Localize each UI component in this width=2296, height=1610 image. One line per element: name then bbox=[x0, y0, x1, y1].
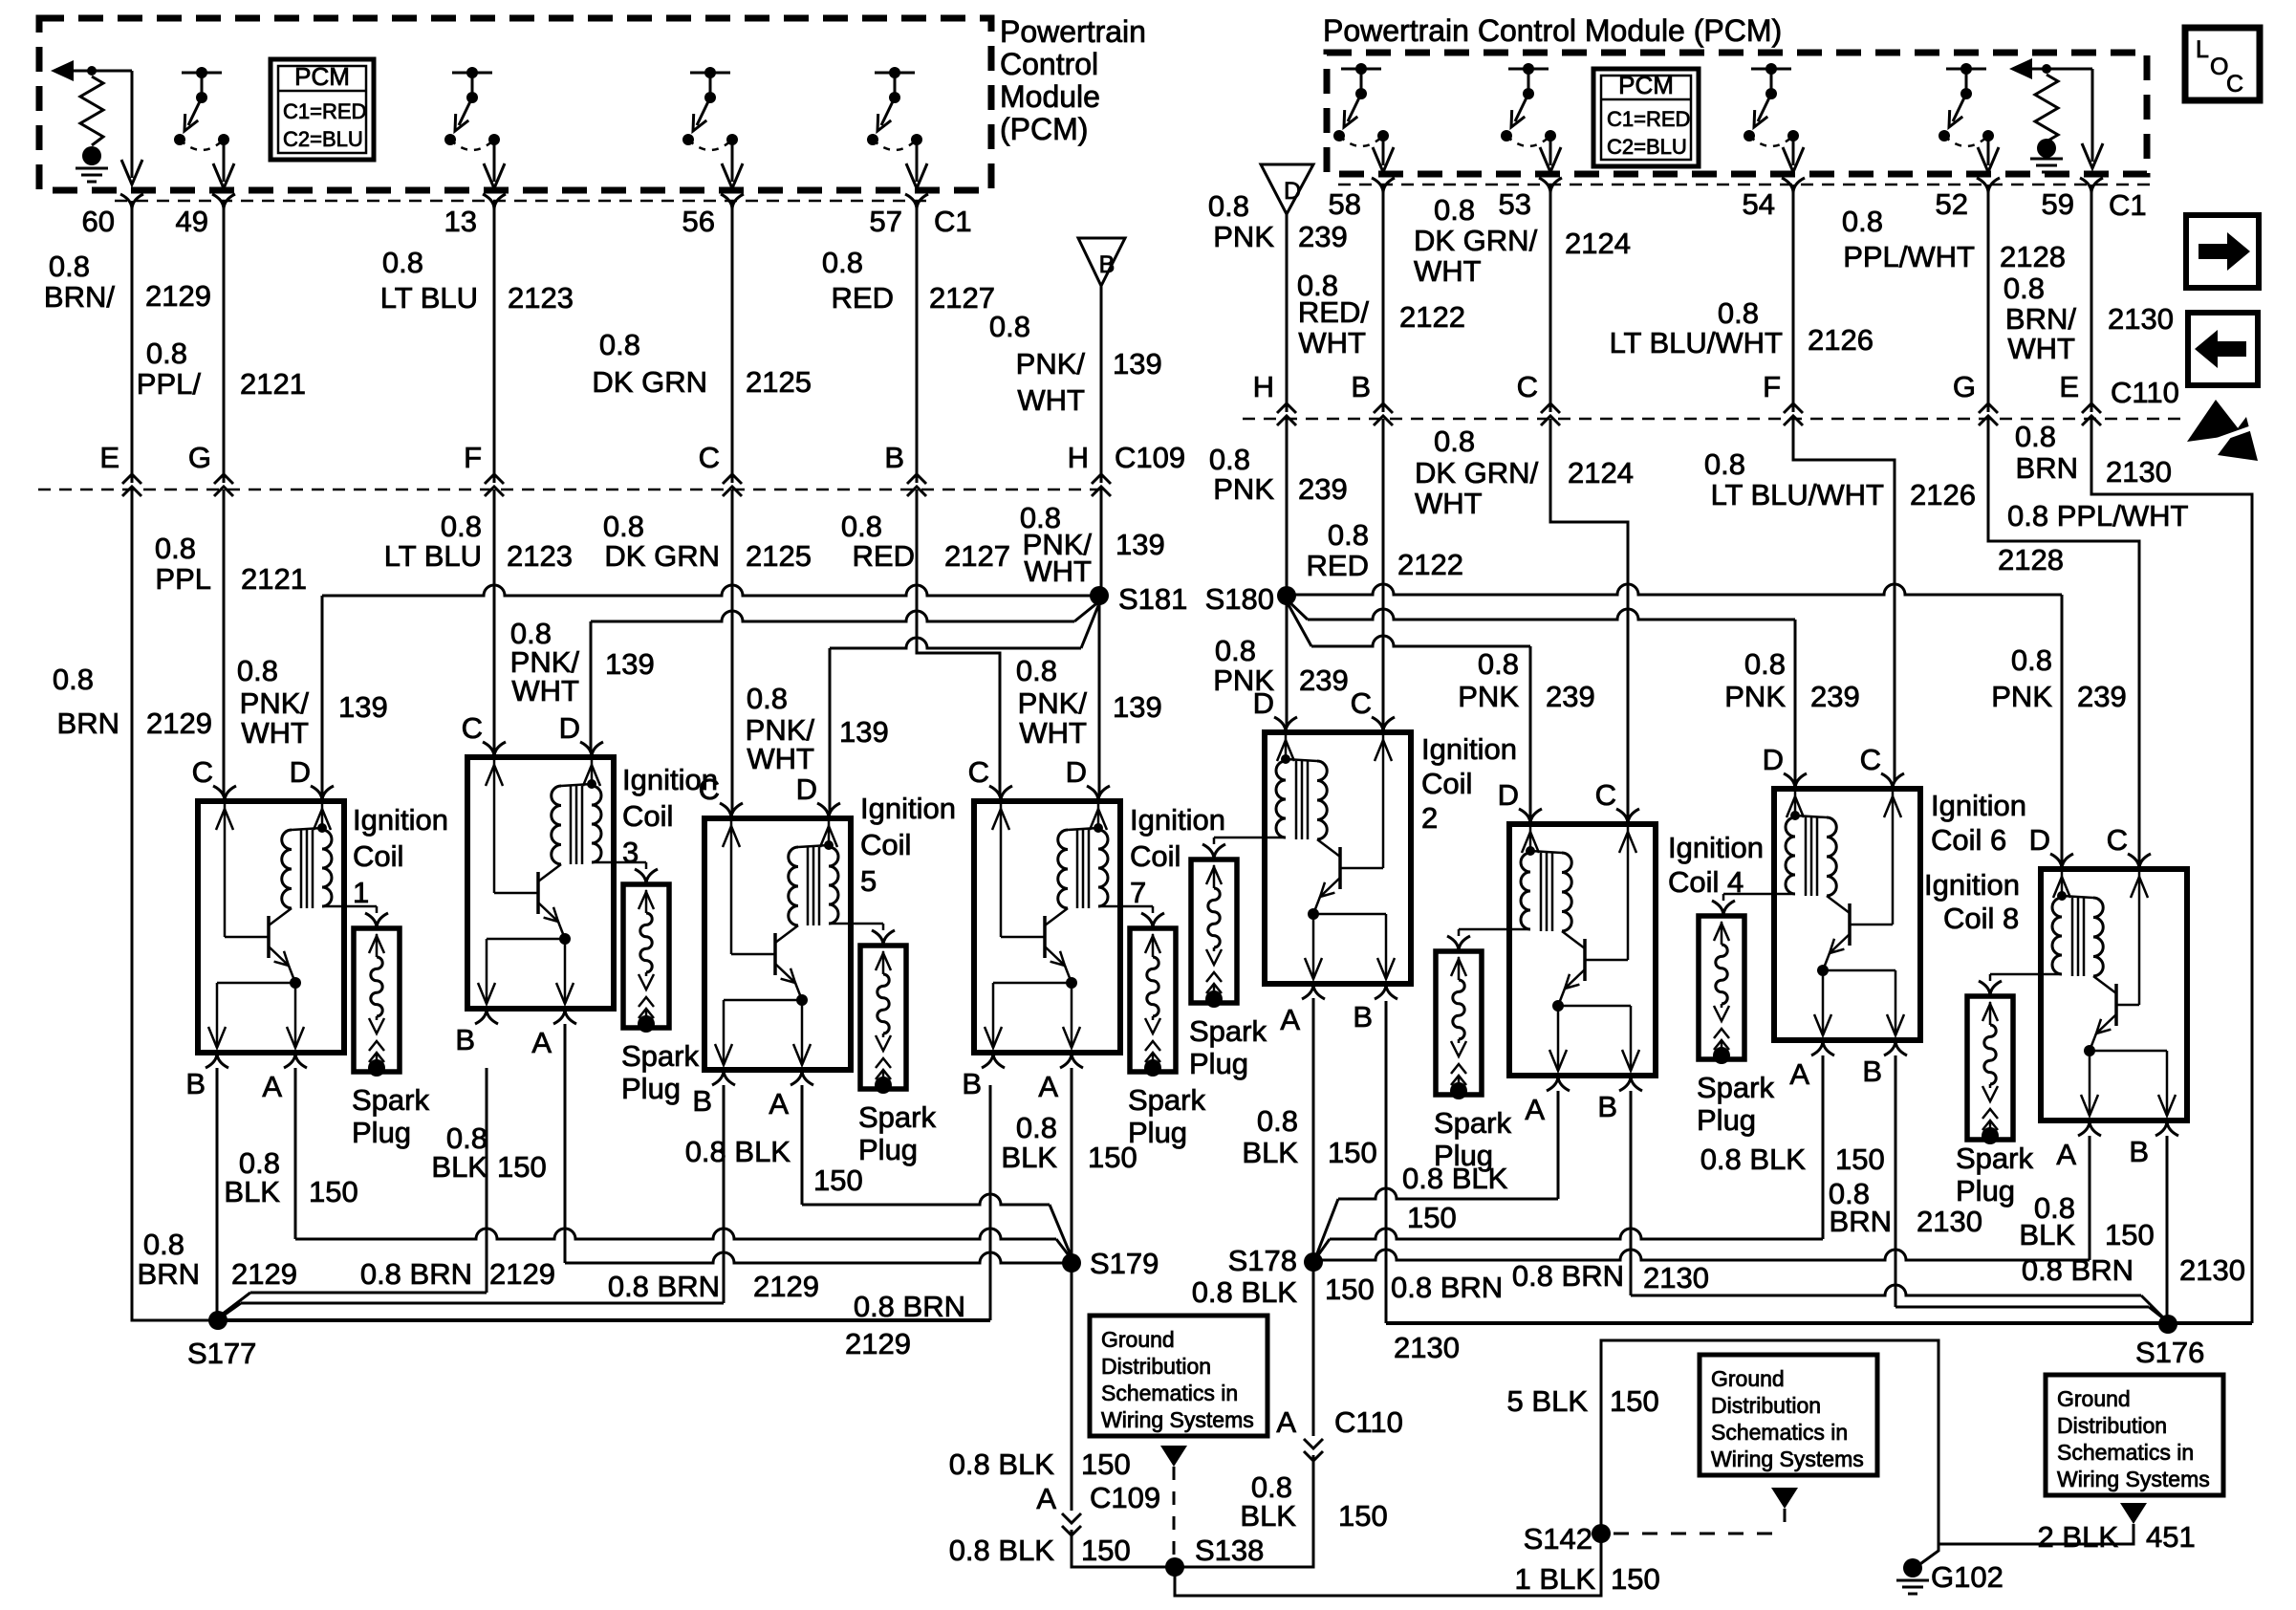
coil 2 D internal wire bbox=[1285, 735, 1288, 759]
wire 150 BLK coil2 A through S178 to C110-A bbox=[1312, 998, 1315, 1436]
svg-text:2130: 2130 bbox=[1643, 1261, 1709, 1295]
C1 pin connector at x=959 bbox=[905, 194, 928, 209]
svg-text:Coil: Coil bbox=[860, 828, 911, 861]
driver dashed arc x=959 bbox=[873, 140, 917, 150]
svg-text:2129: 2129 bbox=[845, 1327, 911, 1360]
coil 3 secondary output to spark plug bbox=[592, 861, 646, 864]
wire 2130 BRN coil2 B to S176 bbox=[1385, 1001, 1388, 1323]
svg-text:239: 239 bbox=[1810, 680, 1860, 713]
coil 3 C internal wire bbox=[493, 760, 496, 893]
spark plug for coil 2 bbox=[1191, 859, 1237, 1003]
svg-text:49: 49 bbox=[176, 205, 208, 238]
ignition coil 1 box bbox=[198, 801, 344, 1053]
svg-text:0.8: 0.8 bbox=[49, 250, 90, 283]
coil 8 terminal D connector bbox=[2050, 854, 2073, 869]
connector C1 line right (dashed) bbox=[1338, 184, 2151, 186]
svg-text:2124: 2124 bbox=[1568, 456, 1634, 490]
svg-text:2129: 2129 bbox=[145, 279, 211, 313]
coil 7 terminal D connector bbox=[1087, 786, 1110, 801]
svg-text:2129: 2129 bbox=[753, 1270, 819, 1303]
svg-text:150: 150 bbox=[1088, 1141, 1137, 1174]
svg-text:2 BLK: 2 BLK bbox=[2038, 1520, 2119, 1554]
svg-text:Wiring Systems: Wiring Systems bbox=[2057, 1467, 2210, 1491]
C1 pin connector at x=234 bbox=[212, 194, 235, 209]
svg-text:DK GRN/: DK GRN/ bbox=[1415, 456, 1539, 490]
svg-text:B: B bbox=[962, 1067, 982, 1100]
svg-text:Spark: Spark bbox=[1697, 1071, 1774, 1104]
svg-text:Distribution: Distribution bbox=[1711, 1393, 1821, 1418]
svg-text:E: E bbox=[99, 441, 119, 474]
coil 3 terminal C connector bbox=[483, 742, 506, 757]
svg-text:2125: 2125 bbox=[746, 365, 812, 399]
svg-text:G: G bbox=[188, 441, 211, 474]
svg-text:C: C bbox=[2226, 71, 2243, 98]
ignition coil 7 box bbox=[974, 801, 1120, 1053]
coil 5 terminal B connector bbox=[712, 1070, 735, 1085]
svg-text:0.8: 0.8 bbox=[822, 246, 863, 279]
coil 4 terminal B connector bbox=[1619, 1076, 1642, 1091]
svg-text:F: F bbox=[464, 441, 482, 474]
svg-text:BRN: BRN bbox=[1830, 1205, 1892, 1238]
svg-text:C: C bbox=[1351, 686, 1372, 720]
coil 1 transformer core bbox=[300, 830, 303, 908]
svg-text:BLK: BLK bbox=[1242, 1136, 1298, 1169]
coil 4 secondary output to spark plug bbox=[1459, 928, 1530, 931]
wire 239 PNK C110-H to S180 bbox=[1286, 419, 1289, 587]
svg-text:B: B bbox=[1351, 370, 1371, 403]
coil 4 terminal A connector bbox=[1547, 1076, 1570, 1091]
svg-text:2121: 2121 bbox=[241, 562, 307, 596]
svg-text:RED: RED bbox=[1307, 549, 1369, 582]
wire 239 PNK triangle-D to C110-H bbox=[1286, 214, 1289, 412]
coil 2 emitter node bbox=[1308, 908, 1319, 920]
svg-text:D: D bbox=[1066, 755, 1087, 789]
connector C110-A pass-through bbox=[1304, 1439, 1323, 1448]
svg-text:2: 2 bbox=[1421, 801, 1438, 835]
coil 7 transistor Q bbox=[1043, 916, 1047, 958]
svg-text:Ground: Ground bbox=[1711, 1366, 1785, 1391]
svg-text:2130: 2130 bbox=[1917, 1205, 1982, 1238]
PCM driver transistor output at x=766 bbox=[690, 72, 730, 75]
driver dashed arc x=1876 bbox=[1749, 136, 1793, 146]
svg-text:DK GRN: DK GRN bbox=[604, 539, 720, 573]
wire 2121 PPL pin49 to C109-G bbox=[223, 201, 226, 483]
svg-text:(PCM): (PCM) bbox=[1000, 112, 1088, 146]
coil 5 terminal A connector bbox=[791, 1070, 813, 1085]
svg-text:B: B bbox=[1353, 1000, 1373, 1033]
coil 6 secondary output to spark plug bbox=[1723, 893, 1795, 896]
svg-text:PNK/: PNK/ bbox=[240, 686, 310, 720]
driver dashed arc x=2080 bbox=[1944, 136, 1988, 146]
coil 5 internal ground wires to A and B bbox=[801, 1000, 804, 1065]
svg-text:Ignition: Ignition bbox=[860, 792, 956, 825]
svg-text:150: 150 bbox=[1081, 1447, 1131, 1481]
svg-text:0.8 BRN: 0.8 BRN bbox=[854, 1290, 965, 1323]
triangle connector B bbox=[1078, 238, 1125, 286]
splice S176 bbox=[2158, 1315, 2177, 1334]
svg-text:A: A bbox=[531, 1026, 552, 1059]
svg-text:5 BLK: 5 BLK bbox=[1507, 1384, 1589, 1418]
svg-text:58: 58 bbox=[1329, 187, 1361, 221]
svg-text:C: C bbox=[1595, 778, 1616, 812]
svg-text:DK GRN: DK GRN bbox=[592, 365, 707, 399]
resistor R-left in PCM with ground bbox=[60, 70, 132, 73]
wire 139 S181 to ignition coil 7 D bbox=[1098, 596, 1101, 794]
coil 8 transformer core bbox=[2071, 898, 2074, 976]
svg-text:2127: 2127 bbox=[929, 281, 995, 315]
svg-text:0.8 BLK: 0.8 BLK bbox=[685, 1135, 791, 1168]
coil 3 transformer core bbox=[570, 786, 573, 864]
svg-text:2125: 2125 bbox=[746, 539, 812, 573]
C109 pass-through at B bbox=[907, 474, 926, 484]
svg-text:B: B bbox=[884, 441, 904, 474]
svg-text:D: D bbox=[1763, 743, 1784, 776]
coil 5 emitter node bbox=[796, 994, 808, 1006]
wire 150 BLK coil4 A to S178 bbox=[1557, 1091, 1560, 1199]
svg-text:BLK: BLK bbox=[1240, 1499, 1296, 1533]
svg-text:B: B bbox=[1862, 1055, 1882, 1088]
wire 2129 BRN C109-E to S177 bbox=[132, 490, 209, 1320]
svg-text:0.8 BRN: 0.8 BRN bbox=[1512, 1259, 1624, 1293]
coil 3 terminal B connector bbox=[475, 1009, 498, 1024]
coil 1 C internal wire bbox=[224, 804, 227, 937]
coil 8 primary winding bbox=[2093, 898, 2103, 976]
svg-text:0.8: 0.8 bbox=[1434, 424, 1475, 458]
coil 7 terminal B connector bbox=[982, 1053, 1005, 1068]
svg-text:Coil: Coil bbox=[353, 839, 403, 873]
svg-text:57: 57 bbox=[870, 205, 902, 238]
PCM driver transistor output at x=1622 bbox=[1508, 68, 1549, 71]
wire 2124 DK GRN/WHT pin53 to C110-C bbox=[1549, 185, 1552, 412]
coil 5 D internal wire bbox=[828, 821, 831, 845]
svg-text:0.8: 0.8 bbox=[1016, 654, 1057, 687]
wire 139 bus S181 to ignition coil 1 D bbox=[322, 585, 1099, 596]
coil 7 terminal A connector bbox=[1060, 1053, 1083, 1068]
ground distribution note box 1 bbox=[1090, 1316, 1267, 1436]
coil 6 D internal wire bbox=[1794, 792, 1797, 816]
svg-text:Ground: Ground bbox=[1101, 1327, 1175, 1352]
svg-text:Coil 6: Coil 6 bbox=[1931, 823, 2006, 857]
gd box 2 pointer triangle bbox=[1771, 1488, 1798, 1509]
svg-text:Powertrain Control Module (PCM: Powertrain Control Module (PCM) bbox=[1323, 13, 1782, 48]
coil 1 D internal wire bbox=[321, 804, 324, 828]
wire 2122 RED/WHT pin58 to C110-B bbox=[1382, 185, 1385, 412]
spark plug for coil 4 bbox=[1436, 951, 1482, 1095]
wire 139 PNK/WHT triangle-B to C109-H bbox=[1100, 286, 1103, 483]
svg-text:WHT: WHT bbox=[747, 742, 814, 775]
svg-text:PNK/: PNK/ bbox=[1018, 686, 1088, 720]
svg-text:Plug: Plug bbox=[1189, 1047, 1248, 1080]
C1 pin connector at x=766 bbox=[721, 194, 744, 209]
coil 1 terminal A connector bbox=[284, 1053, 307, 1068]
triangle connector D bbox=[1261, 164, 1313, 214]
svg-text:PNK: PNK bbox=[1213, 472, 1274, 506]
svg-text:2127: 2127 bbox=[944, 539, 1010, 573]
svg-text:Spark: Spark bbox=[1434, 1106, 1511, 1140]
wire 2130 BRN coil4 B to S176 bbox=[1630, 1091, 1633, 1295]
coil 4 transistor Q bbox=[1583, 939, 1587, 981]
resistor R-right in PCM with ground bbox=[2019, 68, 2092, 71]
coil 8 terminal A connector bbox=[2078, 1120, 2101, 1136]
svg-text:F: F bbox=[1763, 370, 1781, 403]
driver output wire x=766 bbox=[731, 140, 734, 182]
driver output wire x=234 bbox=[223, 140, 226, 182]
wire 2130 BRN C110-E to S176 via right edge bbox=[2091, 419, 2252, 1323]
svg-text:0.8: 0.8 bbox=[143, 1228, 184, 1261]
svg-text:RED: RED bbox=[853, 539, 915, 573]
svg-text:C1: C1 bbox=[2109, 188, 2147, 222]
coil 1 secondary output to spark plug bbox=[322, 905, 377, 908]
svg-text:3: 3 bbox=[622, 836, 639, 869]
svg-text:0.8 BRN: 0.8 BRN bbox=[360, 1257, 472, 1291]
svg-text:150: 150 bbox=[309, 1175, 358, 1208]
svg-text:C: C bbox=[192, 755, 213, 789]
svg-text:139: 139 bbox=[1113, 347, 1162, 381]
svg-text:C1=RED: C1=RED bbox=[1607, 107, 1690, 131]
spark plug for coil 5 bbox=[860, 946, 906, 1089]
coil 2 C internal wire bbox=[1382, 735, 1385, 868]
svg-text:Coil: Coil bbox=[1421, 767, 1472, 800]
svg-text:150: 150 bbox=[813, 1164, 863, 1197]
svg-text:A: A bbox=[1276, 1405, 1296, 1439]
svg-text:PNK: PNK bbox=[1724, 680, 1786, 713]
svg-text:0.8: 0.8 bbox=[237, 654, 278, 687]
wire 150 BLK coil1 A to S179 bbox=[294, 1068, 297, 1239]
PCM driver transistor output at x=1876 bbox=[1751, 68, 1791, 71]
C110 pass-through at G bbox=[1979, 403, 1998, 413]
coil 3 terminal D connector bbox=[580, 742, 603, 757]
coil 4 terminal D connector bbox=[1519, 809, 1542, 824]
svg-text:B: B bbox=[1099, 251, 1116, 278]
svg-text:LT BLU/WHT: LT BLU/WHT bbox=[1711, 478, 1884, 511]
svg-text:1 BLK: 1 BLK bbox=[1515, 1562, 1596, 1596]
coil 5 terminal D connector bbox=[817, 803, 840, 818]
coil 5 primary winding bbox=[789, 847, 798, 925]
svg-text:BLK: BLK bbox=[1001, 1141, 1057, 1174]
svg-text:0.8: 0.8 bbox=[603, 510, 644, 543]
wire 2123 LT BLU pin13 to C109-F bbox=[493, 201, 496, 483]
coil 7 secondary winding bbox=[1098, 830, 1108, 906]
wire 2125 DK GRN pin56 to C109-C bbox=[731, 201, 734, 483]
svg-text:Ignition: Ignition bbox=[353, 803, 448, 837]
svg-text:B: B bbox=[2129, 1135, 2149, 1168]
coil 3 internal ground wires to A and B bbox=[564, 939, 567, 1004]
coil 4 C internal wire bbox=[1627, 827, 1630, 960]
svg-text:Control: Control bbox=[1000, 47, 1098, 81]
svg-text:Ignition: Ignition bbox=[1931, 789, 2026, 822]
ignition coil 4 box bbox=[1509, 824, 1656, 1076]
wire 2130 BRN coil6 B to S176 bbox=[1895, 1055, 1897, 1307]
coil 5 terminal C connector bbox=[720, 803, 743, 818]
svg-text:LT BLU: LT BLU bbox=[380, 281, 478, 315]
coil 5 secondary output to spark plug bbox=[829, 923, 883, 925]
C110 pass-through at B bbox=[1374, 403, 1393, 413]
wire 2129 BRN coil7 B to S177 bbox=[989, 1085, 992, 1320]
svg-text:RED/: RED/ bbox=[1298, 295, 1369, 329]
wire 2128 PPL/WHT pin52 to C110-G bbox=[1987, 185, 1990, 412]
svg-text:WHT: WHT bbox=[1298, 326, 1366, 359]
svg-text:0.8: 0.8 bbox=[1434, 193, 1475, 227]
svg-text:WHT: WHT bbox=[2007, 332, 2075, 365]
wire 2128 PPL/WHT C110-G to ignition coil 8 C bbox=[1988, 419, 2139, 862]
svg-text:PNK: PNK bbox=[1991, 680, 2052, 713]
svg-text:Plug: Plug bbox=[1956, 1174, 2015, 1207]
wire 2130 BRN coil8 B to S176 bbox=[2166, 1136, 2169, 1323]
coil 5 transistor Q bbox=[773, 933, 777, 975]
svg-text:13: 13 bbox=[444, 205, 477, 238]
coil 7 D internal wire bbox=[1097, 804, 1100, 828]
svg-text:2130: 2130 bbox=[2106, 455, 2172, 489]
svg-text:2126: 2126 bbox=[1910, 478, 1976, 511]
svg-text:0.8: 0.8 bbox=[53, 663, 94, 696]
coil 5 transformer core bbox=[807, 847, 810, 925]
ground distribution note box 2 bbox=[1700, 1355, 1877, 1475]
svg-text:150: 150 bbox=[2105, 1218, 2155, 1251]
spark plug for coil 6 bbox=[1699, 916, 1744, 1059]
svg-text:139: 139 bbox=[605, 647, 655, 681]
svg-text:Spark: Spark bbox=[1189, 1014, 1267, 1048]
coil 7 secondary output to spark plug bbox=[1098, 905, 1153, 908]
svg-text:5: 5 bbox=[860, 864, 877, 898]
coil 3 primary winding bbox=[552, 786, 561, 864]
svg-text:2123: 2123 bbox=[508, 281, 574, 315]
spark plug for coil 3 bbox=[623, 884, 669, 1028]
driver output wire x=1876 bbox=[1792, 136, 1795, 165]
svg-text:PNK: PNK bbox=[1213, 664, 1274, 697]
svg-text:0.8 BLK: 0.8 BLK bbox=[949, 1447, 1055, 1481]
svg-text:Distribution: Distribution bbox=[2057, 1413, 2167, 1438]
svg-text:7: 7 bbox=[1130, 876, 1146, 909]
svg-text:2130: 2130 bbox=[2108, 302, 2174, 336]
svg-text:Spark: Spark bbox=[858, 1100, 936, 1134]
svg-text:C: C bbox=[462, 711, 483, 745]
coil 8 emitter node bbox=[2084, 1045, 2095, 1056]
gd box 3 pointer triangle bbox=[2120, 1503, 2147, 1524]
svg-text:239: 239 bbox=[1298, 220, 1348, 253]
svg-text:150: 150 bbox=[1610, 1384, 1659, 1418]
svg-text:DK GRN/: DK GRN/ bbox=[1414, 224, 1538, 257]
splice S178 bbox=[1304, 1252, 1323, 1272]
C109 pass-through at E bbox=[122, 474, 141, 484]
wire 2130 BRN/WHT pin59 to C110-E bbox=[2090, 185, 2093, 412]
svg-text:D: D bbox=[796, 772, 817, 806]
ground symbol in left PCM bbox=[82, 146, 101, 165]
svg-text:Plug: Plug bbox=[858, 1133, 918, 1166]
svg-text:Schematics in: Schematics in bbox=[1711, 1420, 1848, 1445]
svg-text:RED: RED bbox=[832, 281, 894, 315]
C109 pass-through at H bbox=[1092, 474, 1111, 484]
coil 3 secondary winding bbox=[592, 786, 601, 862]
svg-text:PCM: PCM bbox=[294, 62, 350, 91]
svg-text:2122: 2122 bbox=[1397, 548, 1463, 581]
svg-text:A: A bbox=[1280, 1003, 1300, 1036]
coil 3 D internal wire bbox=[591, 760, 594, 784]
svg-text:C: C bbox=[2107, 823, 2128, 857]
svg-text:S178: S178 bbox=[1228, 1244, 1297, 1277]
svg-text:WHT: WHT bbox=[1017, 383, 1085, 417]
coil 4 emitter node bbox=[1552, 1000, 1564, 1012]
wire 2126 LT BLU/WHT pin54 to C110-F bbox=[1792, 185, 1795, 412]
coil 6 terminal A connector bbox=[1811, 1040, 1834, 1055]
wire 2127 RED C109-B to ignition coil 7 C (jog) bbox=[917, 490, 1000, 794]
C1 pin connector at x=517 bbox=[483, 194, 506, 209]
wire 150 BLK coil3 A to S179 bbox=[564, 1024, 567, 1263]
wire 150 BLK C109-A to S138 bbox=[1072, 1530, 1175, 1567]
wire 150 BLK C110-A to S138 junction bbox=[1175, 1455, 1313, 1567]
svg-text:239: 239 bbox=[1546, 680, 1595, 713]
svg-text:239: 239 bbox=[1299, 664, 1349, 697]
svg-text:B: B bbox=[1597, 1090, 1617, 1123]
wire 239 bus S180 to ignition coil 6 D bbox=[1308, 609, 1795, 620]
driver dashed arc x=517 bbox=[450, 140, 494, 150]
svg-text:139: 139 bbox=[839, 715, 889, 749]
coil 2 terminal A connector bbox=[1302, 984, 1325, 999]
coil 1 terminal C connector bbox=[213, 786, 236, 801]
wire 239 S180 to ignition coil 2 D bbox=[1286, 596, 1289, 726]
svg-text:Schematics in: Schematics in bbox=[1101, 1381, 1238, 1405]
svg-text:0.8: 0.8 bbox=[841, 510, 882, 543]
svg-text:BLK: BLK bbox=[224, 1175, 280, 1208]
wire 150 BLK S138 to S142 bbox=[1175, 1534, 1601, 1596]
svg-text:0.8: 0.8 bbox=[1257, 1104, 1298, 1138]
svg-text:2129: 2129 bbox=[146, 707, 212, 740]
coil 3 emitter node bbox=[559, 933, 571, 945]
svg-text:A: A bbox=[1036, 1482, 1056, 1515]
svg-text:S142: S142 bbox=[1524, 1522, 1592, 1556]
svg-text:2126: 2126 bbox=[1808, 323, 1874, 357]
svg-text:56: 56 bbox=[682, 205, 715, 238]
svg-text:BLK: BLK bbox=[2019, 1218, 2075, 1251]
spark plug for coil 7 bbox=[1130, 928, 1176, 1072]
coil 4 primary winding bbox=[1562, 853, 1571, 931]
wire 2129 BRN coil5 B to S177 bbox=[723, 1085, 726, 1303]
coil 7 primary winding bbox=[1058, 830, 1068, 908]
svg-text:D: D bbox=[559, 711, 580, 745]
svg-text:Ignition: Ignition bbox=[1924, 868, 2020, 902]
svg-text:0.8: 0.8 bbox=[1016, 1111, 1057, 1144]
svg-text:0.8: 0.8 bbox=[1704, 447, 1745, 481]
svg-text:2123: 2123 bbox=[507, 539, 573, 573]
coil 6 emitter node bbox=[1817, 965, 1829, 976]
svg-text:BRN/: BRN/ bbox=[2005, 302, 2076, 336]
svg-text:A: A bbox=[2056, 1138, 2076, 1171]
svg-text:Plug: Plug bbox=[352, 1116, 411, 1149]
svg-text:2122: 2122 bbox=[1399, 300, 1465, 334]
svg-text:0.8: 0.8 bbox=[146, 337, 187, 370]
driver dashed arc x=766 bbox=[688, 140, 732, 150]
svg-text:BRN/: BRN/ bbox=[44, 280, 115, 314]
coil 2 terminal B connector bbox=[1375, 984, 1397, 999]
coil 8 secondary winding bbox=[2052, 898, 2062, 974]
splice S181 bbox=[1090, 586, 1109, 605]
svg-text:451: 451 bbox=[2146, 1520, 2196, 1554]
driver dashed arc x=234 bbox=[180, 140, 224, 150]
svg-text:PNK: PNK bbox=[1213, 220, 1274, 253]
coil 6 transformer core bbox=[1805, 817, 1808, 896]
svg-text:Module: Module bbox=[1000, 79, 1100, 114]
PCM module box (right, dashed) bbox=[1327, 53, 2147, 174]
svg-text:Coil: Coil bbox=[622, 799, 673, 833]
PCM driver transistor output at x=1447 bbox=[1341, 68, 1381, 71]
wire 2121 PPL C109-G to ignition coil 1 C bbox=[223, 490, 226, 794]
svg-text:Ignition: Ignition bbox=[1421, 732, 1517, 766]
svg-text:0.8 BLK: 0.8 BLK bbox=[1192, 1275, 1298, 1309]
coil 2 secondary output to spark plug bbox=[1214, 837, 1286, 839]
wire 2125 DK GRN C109-C to ignition coil 5 C bbox=[731, 490, 734, 812]
PCM driver transistor output at x=959 bbox=[875, 72, 915, 75]
svg-text:Wiring Systems: Wiring Systems bbox=[1711, 1447, 1864, 1471]
svg-text:Plug: Plug bbox=[621, 1072, 681, 1105]
